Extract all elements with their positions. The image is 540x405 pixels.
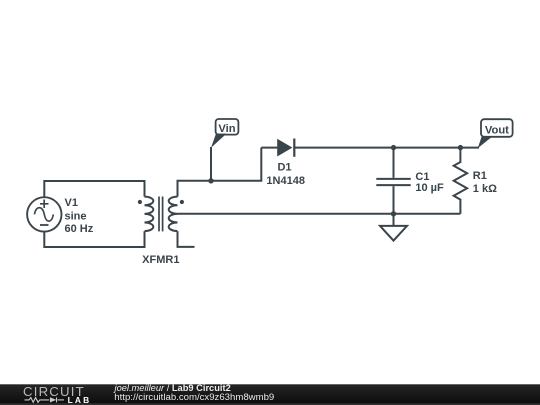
svg-text:sine: sine [65, 210, 87, 222]
svg-text:D1: D1 [277, 162, 291, 174]
svg-text:LAB: LAB [68, 395, 92, 405]
svg-text:60 Hz: 60 Hz [65, 223, 94, 235]
svg-text:V1: V1 [65, 197, 78, 209]
svg-text:http://circuitlab.com/cx9z63hm: http://circuitlab.com/cx9z63hm8wmb9 [114, 392, 274, 403]
svg-text:1N4148: 1N4148 [266, 175, 305, 187]
svg-text:Vin: Vin [218, 123, 235, 135]
svg-text:Vout: Vout [485, 124, 509, 136]
svg-text:R1: R1 [473, 170, 487, 182]
svg-text:10 µF: 10 µF [415, 182, 444, 194]
svg-text:XFMR1: XFMR1 [142, 254, 179, 266]
svg-text:1 kΩ: 1 kΩ [473, 183, 497, 195]
